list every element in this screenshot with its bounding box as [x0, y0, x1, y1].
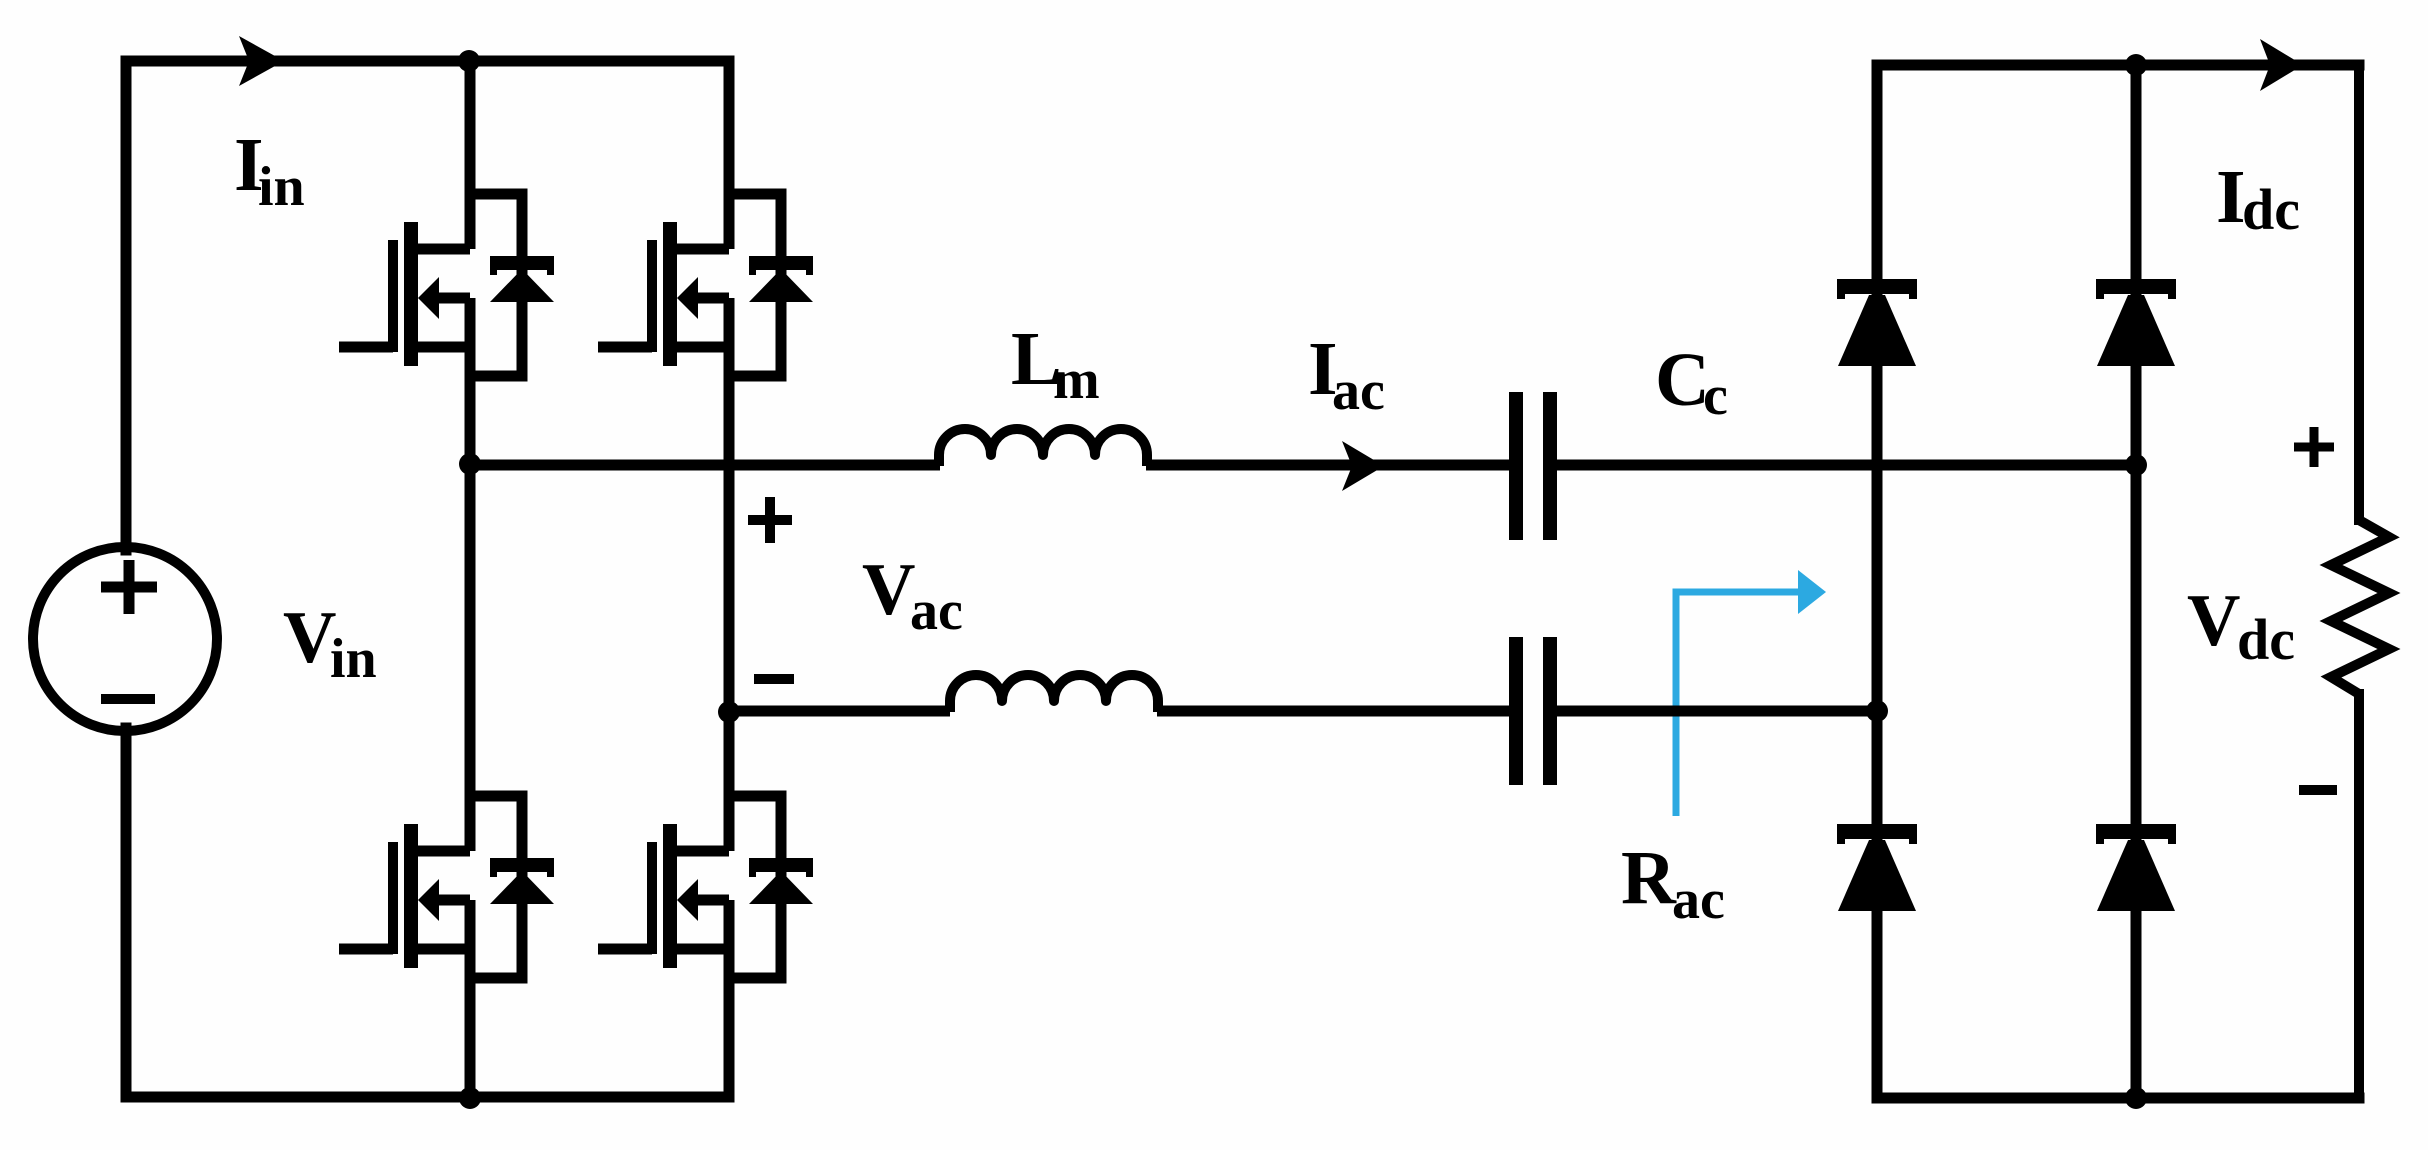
svg-text:ac: ac — [910, 580, 963, 642]
svg-text:C: C — [1655, 338, 1710, 422]
svg-text:V: V — [2187, 580, 2240, 662]
svg-text:m: m — [1053, 349, 1100, 411]
svg-text:R: R — [1621, 836, 1677, 920]
svg-text:dc: dc — [2237, 607, 2295, 672]
svg-text:in: in — [330, 628, 377, 690]
svg-text:ac: ac — [1672, 869, 1725, 931]
svg-text:V: V — [862, 549, 915, 631]
svg-text:dc: dc — [2242, 177, 2300, 242]
svg-text:V: V — [283, 597, 336, 679]
svg-text:c: c — [1703, 365, 1728, 427]
svg-text:in: in — [258, 156, 305, 218]
svg-text:ac: ac — [1332, 360, 1385, 422]
